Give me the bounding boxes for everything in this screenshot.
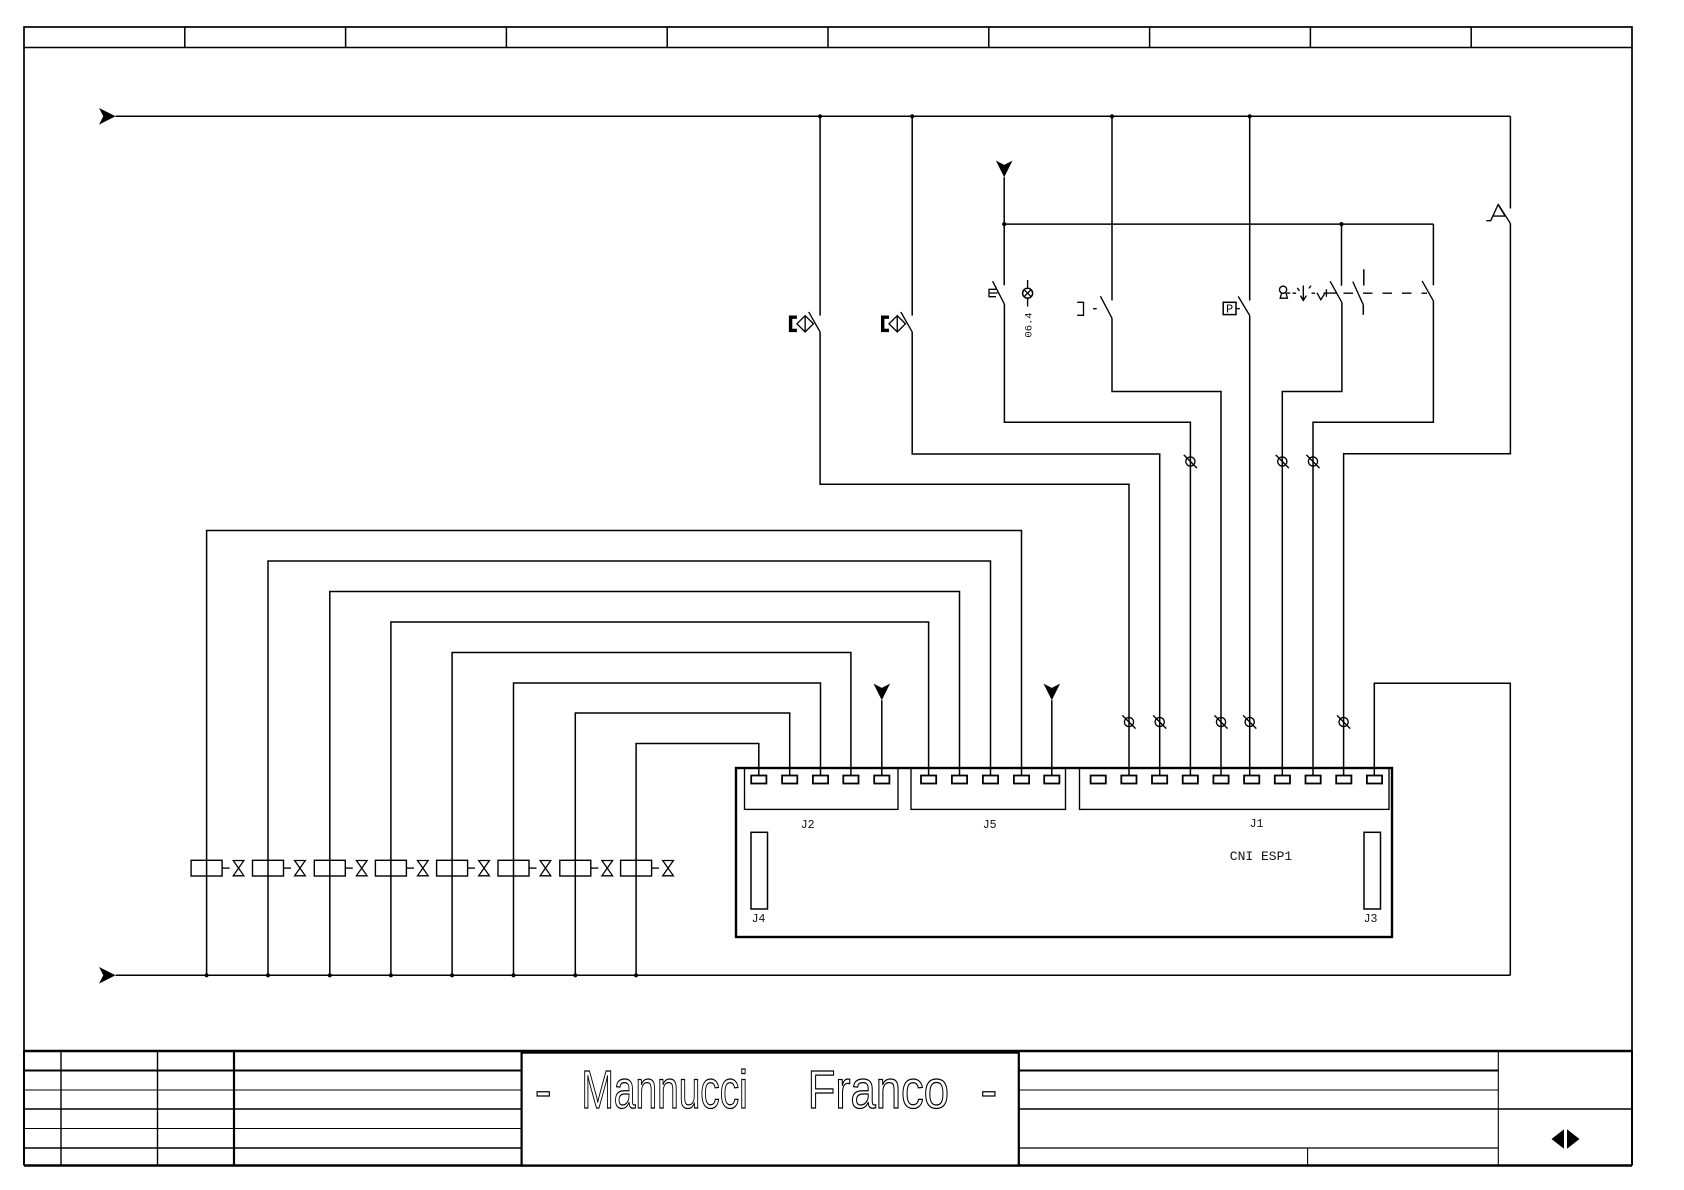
- wire valve Y8 to J2/J5: [636, 744, 759, 976]
- top supply rail feed arrow: [99, 108, 116, 125]
- solenoid valve Y6 coil: [498, 860, 529, 876]
- svg-text:Mannucci: Mannucci: [582, 1060, 748, 1120]
- solenoid valve Y2 coil: [253, 860, 284, 876]
- svg-text:J4: J4: [752, 913, 766, 926]
- connector J1 housing: [1080, 768, 1390, 809]
- junction valve Y5 on bottom rail: [450, 973, 454, 977]
- key switch pole 3: [1422, 224, 1433, 301]
- wire J1 pin 10 to bottom rail: [1374, 683, 1510, 975]
- terminal on S2 wire: [1153, 715, 1166, 728]
- bottom supply rail feed arrow: [99, 967, 116, 984]
- svg-text:J3: J3: [1364, 913, 1378, 926]
- svg-text:J5: J5: [983, 819, 997, 832]
- connector J5 pin 3: [983, 776, 998, 784]
- connector J2 pin 3: [813, 776, 828, 784]
- wire top rail to A switch: [1509, 116, 1511, 208]
- connector J1 pin 4: [1183, 776, 1198, 784]
- solenoid valve Y1 coil: [191, 860, 222, 876]
- solenoid valve Y3 coil: [314, 860, 345, 876]
- title block table: [24, 1050, 1632, 1053]
- svg-text:06.4: 06.4: [1024, 312, 1036, 337]
- wire valve Y7 to J2/J5: [575, 713, 789, 975]
- solenoid valve Y4 coil: [375, 860, 406, 876]
- junction on top rail: [1248, 114, 1252, 118]
- connector J5 housing: [911, 768, 1066, 809]
- key switch pole 1: [1330, 224, 1342, 303]
- valve Y6 symbol: [529, 867, 537, 869]
- valve Y2 symbol: [284, 867, 292, 869]
- emergency switch E: [989, 224, 1004, 304]
- wire sensor S1 to J1 pin 2: [820, 332, 1129, 776]
- valve Y8 symbol: [652, 867, 660, 869]
- feed arrow into J2 pin 5: [874, 684, 891, 701]
- connector J2 pin 5: [874, 776, 889, 784]
- connector J5 pin 4: [1014, 776, 1029, 784]
- valve Y1 symbol: [222, 867, 230, 869]
- wire E switch to J1 pin 4: [1004, 304, 1190, 775]
- feed arrow into J5 pin 5: [1044, 684, 1061, 701]
- wire sensor S2 to J1 pin 3: [912, 332, 1159, 776]
- connector J2 pin 2: [782, 776, 797, 784]
- wire A switch to J1 pin 9: [1344, 224, 1511, 776]
- connector J2 housing: [745, 768, 899, 809]
- wire key pole 1 to J1 pin 7: [1282, 303, 1342, 776]
- automatic contact A: [1486, 205, 1510, 224]
- junction valve Y8 on bottom rail: [634, 973, 638, 977]
- wire valve Y3 to J2/J5: [330, 592, 960, 976]
- svg-text:J1: J1: [1250, 818, 1264, 831]
- valve Y5 symbol: [468, 867, 476, 869]
- second supply rail wire: [1004, 223, 1433, 225]
- key switch pole 2 spare: [1353, 269, 1364, 315]
- terminal on E wire: [1184, 455, 1197, 468]
- junction on top rail: [910, 114, 914, 118]
- terminal on S1 wire: [1122, 715, 1135, 728]
- title box "Mannucci Franco": [522, 1053, 1019, 1166]
- junction valve Y4 on bottom rail: [389, 973, 393, 977]
- connector J3: [1364, 832, 1381, 909]
- connector J1 pin 8: [1306, 776, 1321, 784]
- terminal on A wire: [1337, 715, 1350, 728]
- svg-text:-: -: [535, 1060, 552, 1120]
- wire valve Y2 to J2/J5: [268, 561, 991, 975]
- connector J1 pin 9: [1336, 776, 1351, 784]
- terminal on P wire: [1243, 715, 1256, 728]
- solenoid valve Y5 coil: [437, 860, 468, 876]
- wire valve Y6 to J2/J5: [514, 683, 821, 975]
- connector J5 pin 1: [921, 776, 936, 784]
- valve Y7 symbol: [591, 867, 599, 869]
- controller CNI ESP1 outline: [736, 768, 1392, 937]
- indicator lamp cross-ref 06.4: [1023, 280, 1033, 307]
- svg-text:CNI ESP1: CNI ESP1: [1230, 849, 1293, 864]
- svg-text:J2: J2: [801, 819, 815, 832]
- terminal on pole 1 wire: [1276, 455, 1289, 468]
- junction valve Y1 on bottom rail: [205, 973, 209, 977]
- connector J1 pin 5: [1213, 776, 1228, 784]
- terminal on pole 3 wire: [1306, 455, 1319, 468]
- junction on top rail: [818, 114, 822, 118]
- connector J5 pin 2: [952, 776, 967, 784]
- junction valve Y7 on bottom rail: [573, 973, 577, 977]
- junction second rail at E-stop: [1002, 222, 1006, 226]
- wire valve Y5 to J2/J5: [452, 653, 851, 976]
- junction valve Y6 on bottom rail: [511, 973, 515, 977]
- pushbutton P: [1223, 116, 1250, 316]
- connector J1 pin 3: [1152, 776, 1167, 784]
- connector J2 pin 4: [843, 776, 858, 784]
- proximity switch S2: [883, 116, 913, 332]
- connector J5 pin 5: [1044, 776, 1059, 784]
- key switch mechanical link dashed: [1344, 292, 1428, 294]
- valve Y4 symbol: [406, 867, 414, 869]
- junction valve Y2 on bottom rail: [266, 973, 270, 977]
- wire limit switch to J1 pin 5: [1112, 318, 1221, 775]
- junction on top rail: [1110, 114, 1114, 118]
- key switch actuator chain: [1280, 286, 1337, 301]
- solenoid valve Y7 coil: [560, 860, 591, 876]
- junction valve Y3 on bottom rail: [328, 973, 332, 977]
- terminal on limit switch wire: [1214, 715, 1227, 728]
- feed arrow node above E-stop: [996, 161, 1013, 178]
- bottom supply rail wire: [116, 974, 1511, 976]
- wire key pole 3 to J1 pin 8: [1313, 301, 1433, 776]
- connector J1 pin 2: [1121, 776, 1136, 784]
- connector J1 pin 7: [1275, 776, 1290, 784]
- solenoid valve Y8 coil: [621, 860, 652, 876]
- connector J1 pin 6: [1244, 776, 1259, 784]
- valve Y3 symbol: [345, 867, 353, 869]
- limit switch with bracket actuator: [1077, 116, 1112, 318]
- svg-text:-: -: [981, 1060, 998, 1120]
- svg-text:P: P: [1226, 303, 1233, 317]
- sheet navigation arrows: [1552, 1129, 1565, 1149]
- connector J1 pin 10: [1367, 776, 1382, 784]
- wire valve Y4 to J2/J5: [391, 622, 929, 975]
- wire valve Y1 to J2/J5: [207, 531, 1022, 976]
- connector J2 pin 1: [751, 776, 766, 784]
- junction second rail at key switch: [1339, 222, 1343, 226]
- proximity switch S1: [791, 116, 821, 332]
- wire P to J1 pin 6: [1249, 316, 1251, 776]
- connector J1 pin 1: [1091, 776, 1106, 784]
- svg-text:Franco: Franco: [808, 1060, 949, 1120]
- top title strip: [24, 47, 1632, 49]
- top supply rail wire: [116, 115, 1511, 117]
- connector J4: [751, 832, 768, 909]
